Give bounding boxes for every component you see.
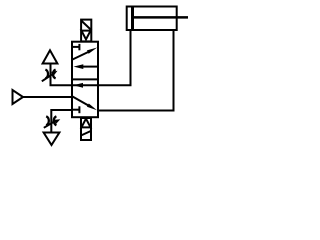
compressed air supply source (13, 90, 24, 104)
arrowhead of top position left arrow (74, 64, 84, 69)
wire from cylinder left port to valve port 4 (73, 30, 131, 85)
upper throttle D1 arcs (45, 70, 48, 79)
valve V1 position divider (71, 78, 99, 80)
upper throttle D1 adjustment arrow (42, 74, 54, 82)
pilot actuator Z1 pilot triangle (81, 31, 90, 40)
supply wire to valve port 1 (23, 96, 72, 98)
valve V1 bottom position: diagonal flow arrow (73, 97, 90, 107)
upper exhaust triangle (43, 50, 58, 63)
valve V1 top position: blocked port T (72, 46, 79, 48)
arrowhead of lower throttle arrow (54, 119, 60, 124)
lower exhaust wire from valve port 3 (51, 110, 72, 133)
arrowhead of top position diagonal arrow (87, 48, 97, 54)
arrowhead of upper throttle arrow (51, 71, 57, 76)
valve V1 body (72, 42, 98, 118)
lower throttle D2 adjustment arrow (44, 121, 56, 128)
lower throttle D2 arcs (46, 116, 49, 125)
cylinder C1 body (127, 7, 177, 31)
valve V1 bottom position: blocked port T (72, 109, 79, 111)
cylinder C1 rod (134, 16, 188, 19)
pilot actuator Z1 manual override diagonal (81, 21, 91, 30)
pilot actuator Z1 (top): box (81, 20, 91, 42)
lower exhaust triangle (44, 133, 60, 146)
valve V1 top position: diagonal flow arrow (73, 51, 90, 59)
pilot actuator Z2 pilot triangle (81, 119, 90, 128)
cylinder C1 piston (131, 7, 134, 31)
pilot actuator Z2 (bottom): box (81, 118, 91, 140)
arrowhead of bottom position left arrow (73, 83, 83, 88)
pilot actuator Z2 manual override diagonal (81, 131, 91, 135)
upper exhaust wire to valve port 5 (51, 65, 74, 86)
arrowhead of bottom position diagonal arrow (87, 104, 97, 111)
valve V1 top position: left flow arrow (82, 66, 98, 68)
wire from cylinder right port to valve port 2 (98, 30, 174, 111)
